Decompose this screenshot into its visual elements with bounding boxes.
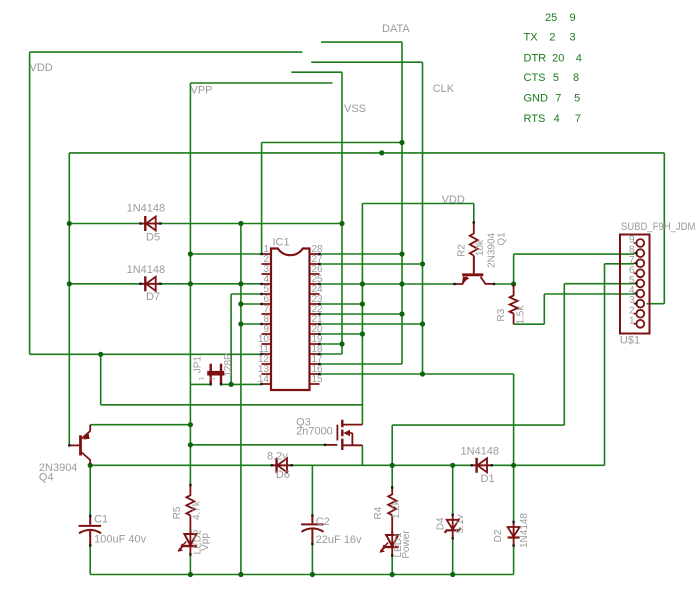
diode D6 8.2v zener bbox=[272, 464, 292, 466]
svg-text:7: 7 bbox=[575, 113, 581, 125]
svg-text:R4: R4 bbox=[373, 506, 384, 519]
wire LED2 bottom bbox=[189, 555, 191, 575]
wire DB9 pin3 vertical bbox=[663, 153, 665, 304]
junction mystery node bbox=[379, 150, 384, 155]
svg-text:8: 8 bbox=[573, 72, 579, 84]
svg-text:20: 20 bbox=[552, 53, 564, 65]
svg-text:14: 14 bbox=[258, 374, 270, 385]
resistor R5 4.7k bbox=[186, 485, 194, 534]
wire to DB9 pin8 bbox=[514, 253, 634, 255]
wire DB9 pin4 link bbox=[544, 293, 634, 295]
wire VDD branch horizontal bbox=[101, 404, 363, 406]
junction pin4 node bbox=[238, 281, 243, 286]
svg-text:JP1: JP1 bbox=[193, 356, 204, 374]
wire ground bottom rail bbox=[90, 574, 513, 576]
wire VDD vertical right bbox=[361, 204, 363, 425]
svg-text:Q1: Q1 bbox=[497, 232, 508, 246]
wire pin21 to CLK bbox=[320, 323, 423, 325]
wire CLK stub bbox=[311, 61, 422, 63]
wire D2 bottom bbox=[513, 546, 515, 575]
junction JP1 pin14 node bbox=[229, 382, 234, 387]
svg-text:1: 1 bbox=[199, 377, 206, 381]
wire D7 row to pin4 bbox=[69, 283, 261, 285]
connector U$1 pin circles bbox=[636, 239, 644, 247]
svg-text:2n7000: 2n7000 bbox=[296, 426, 333, 438]
junction pin22 DATA bbox=[399, 311, 404, 316]
wire VDD mid horizontal bbox=[362, 203, 473, 205]
junction Q4 emitter node bbox=[88, 463, 93, 468]
wire pin18 to VSS bbox=[320, 353, 343, 355]
wire Q4 collector row bbox=[90, 424, 190, 426]
wire VDD top rail bbox=[30, 51, 303, 53]
svg-text:7: 7 bbox=[555, 93, 561, 105]
IC IC1 pin stubs bbox=[262, 254, 320, 384]
svg-text:Q4: Q4 bbox=[39, 471, 54, 483]
wire DATA vertical bbox=[401, 42, 403, 364]
junction pin16 CLK bbox=[420, 371, 425, 376]
capacitor C2 22uF 16v bbox=[301, 516, 324, 545]
wire pin20 link bbox=[320, 333, 363, 335]
svg-text:VDD: VDD bbox=[30, 62, 53, 74]
wire JP1 to pin14 bbox=[221, 383, 262, 385]
svg-text:TX: TX bbox=[524, 32, 539, 44]
svg-text:D7: D7 bbox=[146, 291, 160, 303]
wire DATA stub bbox=[321, 41, 402, 43]
wire left branch vertical bbox=[68, 153, 70, 446]
wire R4 branch bbox=[391, 425, 393, 487]
diode D2 1N4148 bbox=[513, 522, 515, 546]
wire R3 bottom jog bbox=[514, 323, 545, 325]
junction D5 VSS bbox=[339, 221, 344, 226]
wire Q3 source down bbox=[361, 445, 363, 465]
wire D1 up to DB9 pin7 bbox=[604, 264, 606, 466]
svg-text:D6: D6 bbox=[276, 469, 290, 481]
wire VSS stub bbox=[291, 71, 342, 73]
wire pin8 link bbox=[241, 323, 262, 325]
transistor Q4 2N3904 bbox=[69, 444, 79, 446]
junction pin20 VDD bbox=[360, 331, 365, 336]
junction D4 top node bbox=[450, 463, 455, 468]
wire pin25 to Q1 bbox=[320, 283, 455, 285]
svg-text:C1: C1 bbox=[94, 514, 108, 526]
svg-text:15: 15 bbox=[312, 374, 324, 385]
wire Q1 node up bbox=[513, 254, 515, 284]
svg-text:1.2k: 1.2k bbox=[391, 499, 402, 519]
svg-text:1N4148: 1N4148 bbox=[127, 203, 166, 215]
IC IC1 body bbox=[271, 249, 310, 391]
svg-text:8.2v: 8.2v bbox=[267, 451, 288, 463]
svg-text:VSS: VSS bbox=[344, 103, 366, 115]
junction D7 VPP bbox=[188, 281, 193, 286]
wire gnd mid vertical bbox=[240, 224, 242, 575]
junction LED2 ground bbox=[188, 572, 193, 577]
svg-text:IC1: IC1 bbox=[273, 237, 290, 249]
wire Q3 gate row bbox=[190, 444, 325, 446]
wire Q1 collector link bbox=[494, 283, 514, 285]
wire pin17 to DATA bbox=[320, 363, 403, 365]
diode D7 1N4148 bbox=[141, 283, 161, 285]
resistor R4 1.2k bbox=[388, 488, 396, 536]
junction pin8 node bbox=[238, 321, 243, 326]
svg-text:128P: 128P bbox=[223, 353, 234, 377]
wire C1 branch bbox=[89, 465, 91, 516]
junction pin25 VDD bbox=[360, 281, 365, 286]
svg-text:R2: R2 bbox=[457, 244, 468, 257]
LED LED1 Power bbox=[391, 531, 393, 556]
wire pin16 down bbox=[513, 374, 515, 521]
diode D4 5.1v zener bbox=[452, 515, 454, 539]
wire D4 branch bbox=[452, 465, 454, 515]
wire DB9 pin3 link bbox=[647, 303, 665, 305]
wire MCLR vertical to pin1 bbox=[261, 143, 263, 255]
junction pin25 DATA bbox=[399, 281, 404, 286]
wire pin5 link bbox=[231, 293, 261, 295]
svg-text:R3: R3 bbox=[496, 308, 507, 321]
junction pin21 CLK bbox=[420, 321, 425, 326]
svg-text:1N4148: 1N4148 bbox=[127, 264, 166, 276]
wire lower row bbox=[90, 464, 604, 466]
svg-text:2: 2 bbox=[549, 32, 555, 44]
wire VDD branch vertical bbox=[100, 354, 102, 405]
IC IC1 pin connection points bbox=[260, 253, 262, 255]
wire pin5 vertical bbox=[230, 294, 232, 385]
wire pin23 link bbox=[320, 303, 363, 305]
wire MCLR horizontal bbox=[262, 142, 402, 144]
svg-text:22uF 16v: 22uF 16v bbox=[316, 534, 362, 546]
diode D5 1N4148 bbox=[141, 223, 161, 225]
svg-text:D5: D5 bbox=[146, 231, 160, 243]
wire RTS link horizontal bbox=[392, 424, 564, 426]
svg-text:CLK: CLK bbox=[433, 83, 455, 95]
svg-text:DTR: DTR bbox=[524, 53, 547, 65]
connector U$1 SUBD_F9H_JDM box bbox=[620, 235, 650, 334]
wire DB9 pin7 link bbox=[605, 263, 635, 265]
junction VDD branch bbox=[98, 352, 103, 357]
svg-text:3: 3 bbox=[569, 32, 575, 44]
junction VPP pin1 bbox=[188, 251, 193, 256]
wire RTS link vertical bbox=[563, 284, 565, 425]
svg-text:1N4148: 1N4148 bbox=[519, 513, 530, 548]
junction D2 node bbox=[511, 463, 516, 468]
wire C2 branch bbox=[311, 465, 313, 515]
junction Q3 gate VPP bbox=[188, 442, 193, 447]
wire VPP to pin1 bbox=[190, 253, 261, 255]
capacitor C1 100uF 40v bbox=[79, 516, 102, 546]
wire pin6 link bbox=[241, 303, 262, 305]
wire VPP stub bbox=[190, 82, 332, 84]
junction D5 mid bbox=[238, 221, 243, 226]
resistor R2 10k bbox=[470, 223, 478, 274]
LED LED2 Vpp bbox=[189, 530, 191, 555]
svg-text:CTS: CTS bbox=[524, 72, 546, 84]
junction pin23 VDD bbox=[360, 301, 365, 306]
wire VDD left vertical bbox=[29, 52, 31, 354]
wire VPP vertical bbox=[189, 83, 191, 485]
wire pin22 to DATA bbox=[320, 313, 403, 315]
junction D5 left bbox=[67, 221, 72, 226]
junction pin6 node bbox=[238, 301, 243, 306]
svg-text:4: 4 bbox=[576, 53, 582, 65]
junction Q1 collector node bbox=[511, 281, 516, 286]
svg-text:Vpp: Vpp bbox=[200, 533, 211, 551]
svg-text:GND: GND bbox=[524, 93, 549, 105]
diode D1 1N4148 bbox=[472, 464, 492, 466]
svg-text:5: 5 bbox=[553, 72, 559, 84]
wire C2 bottom bbox=[311, 544, 313, 575]
wire pin19 to VSS bbox=[320, 343, 343, 345]
svg-text:1.5k: 1.5k bbox=[516, 305, 527, 325]
junction pin19 VSS bbox=[339, 341, 344, 346]
svg-text:DATA: DATA bbox=[382, 23, 410, 35]
wire R3 jog up bbox=[543, 294, 545, 324]
wire C1 bottom bbox=[89, 546, 91, 575]
junction D7 left bbox=[67, 281, 72, 286]
wire JP1 left link bbox=[190, 383, 210, 385]
svg-text:U$1: U$1 bbox=[620, 335, 640, 347]
svg-text:1N4148: 1N4148 bbox=[461, 446, 500, 458]
wire long horizontal net bbox=[69, 152, 664, 154]
svg-text:SUBD_F9H_JDM: SUBD_F9H_JDM bbox=[621, 221, 696, 233]
wire pin11 VDD row bbox=[30, 353, 262, 355]
junction R4 top node bbox=[390, 463, 395, 468]
svg-text:C2: C2 bbox=[316, 516, 330, 528]
wire CLK vertical bbox=[422, 62, 424, 374]
svg-text:RTS: RTS bbox=[524, 113, 546, 125]
svg-text:5: 5 bbox=[574, 93, 580, 105]
svg-text:VPP: VPP bbox=[191, 85, 213, 97]
svg-text:VDD: VDD bbox=[442, 194, 465, 206]
wire pin16 row bbox=[320, 373, 514, 375]
junction D4 ground bbox=[450, 572, 455, 577]
wire VDD vertical to R2 bbox=[473, 204, 475, 223]
junction DATA/MCLR bbox=[399, 140, 404, 145]
transistor Q3 2n7000 bbox=[325, 425, 337, 445]
junction LED1 ground bbox=[390, 572, 395, 577]
svg-text:Power: Power bbox=[401, 530, 412, 559]
jumper JP1 bbox=[211, 364, 221, 384]
svg-text:10k: 10k bbox=[475, 239, 486, 256]
svg-text:25: 25 bbox=[545, 12, 557, 24]
resistor R3 1.5k bbox=[510, 284, 518, 324]
svg-text:9: 9 bbox=[569, 12, 575, 24]
svg-text:4.7k: 4.7k bbox=[192, 500, 203, 520]
svg-text:5.1v: 5.1v bbox=[455, 514, 466, 533]
wire DB9 pin5 link bbox=[564, 283, 634, 285]
svg-text:D1: D1 bbox=[481, 473, 495, 485]
wire pin28 to DATA bbox=[320, 253, 403, 255]
svg-text:D4: D4 bbox=[436, 517, 447, 530]
svg-text:R5: R5 bbox=[172, 506, 183, 519]
wire D4 bottom bbox=[452, 536, 454, 575]
svg-text:D2: D2 bbox=[493, 529, 504, 542]
junction Q4 collector VPP bbox=[188, 422, 193, 427]
junction pin28 DATA bbox=[399, 251, 404, 256]
junction C2 ground bbox=[310, 572, 315, 577]
svg-text:4: 4 bbox=[554, 113, 560, 125]
svg-text:100uF 40v: 100uF 40v bbox=[94, 534, 146, 546]
junction pin27 CLK bbox=[420, 261, 425, 266]
junction mid ground bbox=[238, 572, 243, 577]
wire VSS vertical bbox=[341, 72, 343, 354]
wire pin27 to CLK bbox=[320, 263, 423, 265]
wire LED1 bottom bbox=[391, 555, 393, 575]
svg-text:1: 1 bbox=[629, 315, 635, 326]
svg-text:2: 2 bbox=[209, 376, 216, 380]
wire D5 row bbox=[69, 223, 342, 225]
transistor Q1 2N3904 bbox=[455, 277, 495, 284]
